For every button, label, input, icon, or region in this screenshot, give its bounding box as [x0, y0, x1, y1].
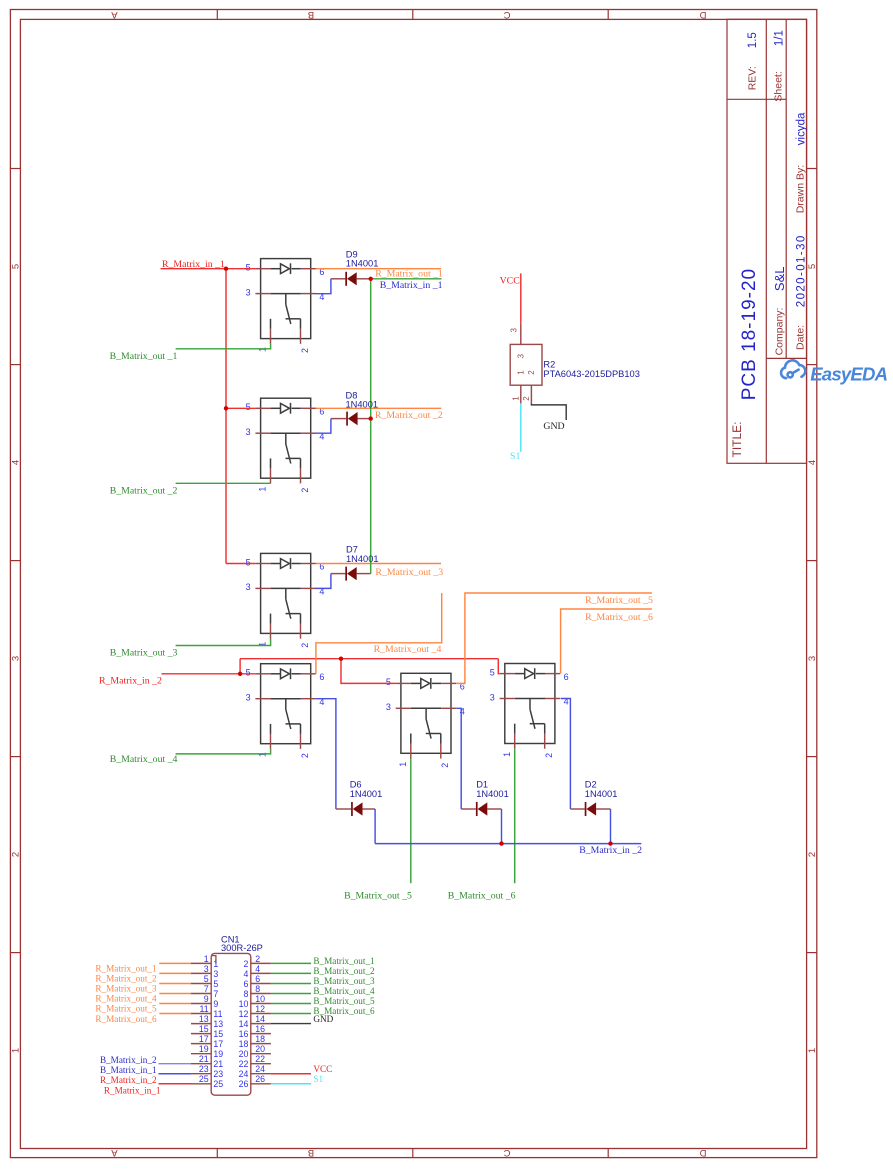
- svg-text:A: A: [111, 9, 118, 20]
- wire B_Matrix_out_2: [176, 482, 271, 484]
- svg-text:12: 12: [255, 1004, 265, 1014]
- svg-text:PTA6043-2015DPB103: PTA6043-2015DPB103: [543, 369, 639, 379]
- svg-text:B_Matrix_out _4: B_Matrix_out _4: [110, 754, 178, 765]
- svg-text:S1: S1: [313, 1074, 323, 1084]
- svg-text:25: 25: [199, 1074, 209, 1084]
- svg-text:5: 5: [807, 264, 818, 269]
- svg-text:B_Matrix_in_1: B_Matrix_in_1: [100, 1065, 157, 1075]
- svg-text:1: 1: [11, 1048, 22, 1053]
- svg-text:11: 11: [200, 1004, 209, 1014]
- svg-text:B: B: [308, 9, 314, 20]
- svg-text:4: 4: [255, 964, 260, 974]
- CN1 right wires B_Matrix_out 1-6: [271, 963, 311, 1013]
- diode D6 leads: [336, 808, 375, 810]
- R2 pin 1 bottom: [520, 385, 522, 403]
- svg-text:1N4001: 1N4001: [346, 554, 379, 564]
- wire R_Matrix_in_2 riser: [239, 659, 241, 674]
- opto relay K1: [246, 259, 325, 353]
- svg-text:B_Matrix_out_5: B_Matrix_out_5: [313, 996, 375, 1006]
- svg-text:2020-01-30: 2020-01-30: [795, 234, 807, 307]
- svg-text:10: 10: [239, 999, 249, 1009]
- svg-text:B_Matrix_out_4: B_Matrix_out_4: [313, 986, 375, 996]
- svg-text:GND: GND: [313, 1014, 333, 1024]
- diode D8 leads: [331, 418, 371, 420]
- svg-text:19: 19: [199, 1044, 209, 1054]
- wire R_Matrix_in_2 drop to K6: [498, 659, 499, 674]
- wire B_Matrix_out_3: [176, 639, 271, 646]
- potentiometer R2 body: [510, 344, 542, 385]
- opto relay K5: [386, 673, 465, 767]
- svg-text:vicyda: vicyda: [795, 112, 807, 145]
- svg-text:B_Matrix_out_2: B_Matrix_out_2: [313, 966, 375, 976]
- label D2 1N4001: [585, 780, 618, 799]
- svg-text:1/1: 1/1: [773, 30, 785, 46]
- diode D9 leads: [331, 278, 371, 280]
- wire K1 pin4 to D9: [315, 279, 331, 294]
- R2 pin 3 top: [520, 323, 522, 344]
- svg-text:5: 5: [213, 979, 218, 989]
- svg-text:300R-26P: 300R-26P: [221, 943, 263, 953]
- svg-text:B_Matrix_out _6: B_Matrix_out _6: [448, 891, 516, 902]
- svg-text:2: 2: [243, 959, 248, 969]
- svg-text:13: 13: [213, 1019, 223, 1029]
- wire R_Matrix_out_5 from K5 pin6: [456, 593, 652, 683]
- label D1 1N4001: [476, 780, 509, 799]
- opto relay K3: [246, 553, 325, 647]
- svg-text:1: 1: [807, 1048, 818, 1053]
- svg-text:D: D: [699, 1147, 706, 1158]
- wire B_Matrix_out_5 vertical: [410, 758, 412, 883]
- svg-text:1.5: 1.5: [747, 32, 759, 48]
- label D9 1N4001: [346, 249, 379, 268]
- title block outline: [727, 19, 807, 463]
- svg-text:24: 24: [239, 1069, 249, 1079]
- svg-text:25: 25: [213, 1079, 223, 1089]
- svg-text:R_Matrix_out_1: R_Matrix_out_1: [95, 964, 157, 974]
- svg-text:1: 1: [204, 954, 209, 964]
- wire R_Matrix_out_3 from K3 pin6: [316, 563, 441, 565]
- wire R_Matrix_in_1 branch to K3 pin5: [226, 563, 255, 565]
- diode D8 1N4001: [346, 412, 357, 426]
- CN1 wire B_Matrix_in_2 pin21: [159, 1063, 192, 1065]
- svg-text:B_Matrix_in_2: B_Matrix_in_2: [100, 1055, 157, 1065]
- svg-text:R_Matrix_in _2: R_Matrix_in _2: [99, 675, 162, 686]
- svg-text:R_Matrix_out _4: R_Matrix_out _4: [374, 644, 442, 655]
- svg-text:D: D: [699, 9, 706, 20]
- svg-text:C: C: [503, 9, 510, 20]
- svg-text:4: 4: [11, 460, 22, 465]
- svg-text:15: 15: [199, 1024, 209, 1034]
- svg-text:1N4001: 1N4001: [585, 789, 618, 799]
- svg-text:B_Matrix_out_3: B_Matrix_out_3: [313, 976, 375, 986]
- wire R_Matrix_in_1 branch to K2 pin5: [226, 407, 255, 409]
- svg-text:20: 20: [239, 1049, 249, 1059]
- svg-text:R_Matrix_out _1: R_Matrix_out _1: [375, 268, 443, 279]
- diode D1 leads: [461, 808, 501, 810]
- svg-text:3: 3: [517, 354, 526, 359]
- svg-text:C: C: [503, 1147, 510, 1158]
- svg-text:4: 4: [243, 969, 248, 979]
- wire R_Matrix_in_1 vertical trunk: [225, 269, 227, 564]
- svg-text:1N4001: 1N4001: [346, 259, 379, 269]
- svg-text:1: 1: [512, 396, 521, 401]
- CN1 right labels B_Matrix_out 1-6: [313, 956, 375, 1016]
- svg-text:21: 21: [199, 1054, 209, 1064]
- svg-text:8: 8: [255, 984, 260, 994]
- svg-text:26: 26: [239, 1079, 249, 1089]
- svg-text:R_Matrix_out _6: R_Matrix_out _6: [585, 612, 653, 623]
- svg-text:24: 24: [255, 1064, 265, 1074]
- svg-text:6: 6: [243, 979, 248, 989]
- connector CN1 body: [211, 953, 251, 1095]
- svg-text:R_Matrix_in_2: R_Matrix_in_2: [100, 1075, 157, 1085]
- svg-text:18: 18: [239, 1039, 249, 1049]
- wire R_Matrix_out_2 from K2 pin6: [316, 407, 441, 409]
- svg-text:1: 1: [213, 959, 218, 969]
- wire B_Matrix_out_1: [176, 344, 271, 349]
- svg-text:R_Matrix_out _5: R_Matrix_out _5: [585, 595, 653, 606]
- wire K5 pin4 down to D1: [456, 708, 461, 809]
- svg-text:22: 22: [239, 1059, 249, 1069]
- svg-text:12: 12: [239, 1009, 249, 1019]
- svg-text:R_Matrix_out_6: R_Matrix_out_6: [95, 1014, 157, 1024]
- CN1 wire R_Matrix_in_2 pin25: [159, 1083, 192, 1085]
- svg-text:Drawn By:: Drawn By:: [795, 165, 807, 213]
- R2 pin numbers: [510, 328, 532, 401]
- svg-text:22: 22: [255, 1054, 265, 1064]
- svg-text:3: 3: [213, 969, 218, 979]
- svg-text:R_Matrix_out_5: R_Matrix_out_5: [95, 1004, 157, 1014]
- svg-text:17: 17: [213, 1039, 223, 1049]
- diode D7 leads: [331, 573, 371, 575]
- svg-text:2: 2: [522, 396, 531, 401]
- svg-text:7: 7: [213, 989, 218, 999]
- diode D2 leads: [570, 808, 610, 810]
- opto relay K4: [246, 664, 325, 758]
- wire K6 pin4 down to D2: [561, 699, 571, 810]
- svg-text:B_Matrix_in _1: B_Matrix_in _1: [380, 280, 443, 291]
- CN1 wire VCC pin24: [271, 1073, 311, 1075]
- svg-text:17: 17: [199, 1034, 209, 1044]
- wire R_Matrix_out_6 from K6 pin6: [561, 609, 652, 674]
- label CN1 300R-26P: [221, 935, 263, 954]
- svg-text:R_Matrix_out _3: R_Matrix_out _3: [375, 567, 443, 578]
- diode D7 1N4001: [345, 567, 356, 581]
- label D8 1N4001: [346, 390, 379, 409]
- svg-text:B_Matrix_out _5: B_Matrix_out _5: [344, 891, 412, 902]
- svg-text:5: 5: [11, 264, 22, 269]
- svg-text:TITLE:: TITLE:: [730, 421, 744, 457]
- svg-text:GND: GND: [543, 421, 564, 432]
- frame zone letters bottom: [111, 1147, 707, 1158]
- svg-text:3: 3: [510, 328, 519, 333]
- wire VCC to R2 pin3: [520, 273, 522, 323]
- svg-text:1: 1: [517, 370, 526, 375]
- svg-text:Sheet:: Sheet:: [773, 71, 785, 101]
- svg-text:23: 23: [199, 1064, 209, 1074]
- svg-text:Date:: Date:: [795, 325, 807, 350]
- svg-text:20: 20: [255, 1044, 265, 1054]
- svg-text:3: 3: [11, 656, 22, 661]
- CN1 wire GND pin14: [271, 1023, 311, 1025]
- diode D9 1N4001: [345, 272, 356, 286]
- wire B_Matrix_out_4: [176, 749, 271, 754]
- R2 pin 2 bottom: [530, 385, 532, 403]
- svg-text:26: 26: [255, 1074, 265, 1084]
- svg-text:13: 13: [199, 1014, 209, 1024]
- opto relay K6: [490, 664, 569, 758]
- wire R_Matrix_out_1 from K1 pin6: [316, 268, 441, 270]
- svg-text:1N4001: 1N4001: [346, 400, 379, 410]
- CN1 wire S1 pin26: [271, 1083, 311, 1085]
- svg-text:2: 2: [807, 852, 818, 857]
- svg-text:EasyEDA: EasyEDA: [810, 363, 887, 384]
- svg-text:S&L: S&L: [772, 267, 787, 292]
- diode D1 1N4001: [476, 802, 487, 816]
- svg-text:10: 10: [255, 994, 265, 1004]
- CN1 pin1 notch: [211, 956, 216, 964]
- wire B_Matrix_in_1 vertical trunk: [370, 279, 372, 574]
- junction dots: [224, 267, 613, 846]
- frame zone numbers right: [807, 264, 818, 1053]
- svg-text:VCC: VCC: [313, 1064, 332, 1074]
- label D6 1N4001: [350, 780, 383, 799]
- EasyEDA logo cloud: [781, 360, 805, 378]
- svg-text:R_Matrix_in _1: R_Matrix_in _1: [162, 259, 225, 270]
- svg-text:PCB 18-19-20: PCB 18-19-20: [739, 268, 760, 400]
- svg-text:B_Matrix_out _2: B_Matrix_out _2: [110, 485, 178, 496]
- svg-text:2: 2: [255, 954, 260, 964]
- wire K3 pin4 to D7: [315, 574, 331, 589]
- svg-text:11: 11: [213, 1009, 222, 1019]
- frame zone letters top: [111, 9, 707, 20]
- CN1 left labels R_Matrix_out 1-6: [95, 964, 157, 1024]
- svg-text:14: 14: [255, 1014, 265, 1024]
- svg-text:16: 16: [255, 1024, 265, 1034]
- svg-text:R_Matrix_out_4: R_Matrix_out_4: [95, 994, 157, 1004]
- svg-text:18: 18: [255, 1034, 265, 1044]
- CN1 wire B_Matrix_in_1 pin23: [159, 1073, 192, 1075]
- svg-text:B: B: [308, 1147, 314, 1158]
- wire B_Matrix_out_6 vertical: [514, 749, 516, 884]
- svg-text:7: 7: [204, 984, 209, 994]
- svg-text:R_Matrix_out_3: R_Matrix_out_3: [95, 984, 157, 994]
- label R2 PTA6043-2015DPB103: [543, 360, 639, 379]
- svg-text:B_Matrix_in _2: B_Matrix_in _2: [579, 845, 642, 856]
- wire D1 to bus: [501, 809, 503, 844]
- CN1 pin numbers inside: [213, 959, 248, 1089]
- wire K4 pin4 down to D6: [316, 699, 336, 809]
- svg-text:16: 16: [239, 1029, 249, 1039]
- svg-text:A: A: [111, 1147, 118, 1158]
- frame zone numbers left: [11, 264, 22, 1053]
- svg-text:6: 6: [255, 974, 260, 984]
- svg-text:2: 2: [11, 852, 22, 857]
- svg-text:14: 14: [239, 1019, 249, 1029]
- svg-text:3: 3: [204, 964, 209, 974]
- wire R_Matrix_in_2 drop to K5: [341, 659, 396, 684]
- svg-text:REV:: REV:: [747, 66, 759, 90]
- svg-text:S1: S1: [510, 451, 520, 462]
- diode D2 1N4001: [585, 802, 596, 816]
- wire B_Matrix_in_2 bus: [375, 843, 641, 845]
- wire D6 to B_Matrix_in_2 bus: [374, 809, 376, 844]
- wire D2 to bus: [610, 809, 612, 844]
- svg-text:B_Matrix_out _1: B_Matrix_out _1: [110, 351, 178, 362]
- svg-text:4: 4: [807, 460, 818, 465]
- svg-text:9: 9: [213, 999, 218, 1009]
- svg-text:1N4001: 1N4001: [476, 789, 509, 799]
- wire R_Matrix_in_1 horizontal to K1 pin5: [161, 268, 256, 270]
- wire R_Matrix_in_2 horizontal to K4 pin5: [162, 673, 256, 675]
- wire S1 from R2 pin1: [520, 403, 522, 451]
- wire GND from R2 pin2: [531, 403, 566, 420]
- svg-text:B_Matrix_out _3: B_Matrix_out _3: [110, 648, 178, 659]
- wire R_Matrix_out_4 from K4 pin6: [316, 593, 442, 674]
- diode D6 1N4001: [351, 802, 362, 816]
- wire K2 pin4 to D8: [315, 419, 331, 434]
- label D7 1N4001: [346, 545, 379, 564]
- R2 pin names inside: [517, 354, 537, 375]
- svg-text:Company:: Company:: [774, 308, 786, 356]
- wire R_Matrix_in_2 upper trunk: [240, 658, 498, 660]
- CN1 left wires R_Matrix_out 1-6: [159, 963, 191, 1013]
- svg-text:2: 2: [527, 370, 536, 375]
- CN1 pin stubs: [191, 963, 271, 1083]
- svg-text:8: 8: [243, 989, 248, 999]
- CN1 pin numbers outside: [199, 954, 265, 1084]
- opto relay K2: [246, 398, 325, 492]
- svg-text:15: 15: [213, 1029, 223, 1039]
- svg-text:23: 23: [213, 1069, 223, 1079]
- svg-text:19: 19: [213, 1049, 223, 1059]
- svg-text:R_Matrix_out_2: R_Matrix_out_2: [95, 974, 157, 984]
- svg-text:21: 21: [213, 1059, 223, 1069]
- svg-text:5: 5: [204, 974, 209, 984]
- svg-text:B_Matrix_out_1: B_Matrix_out_1: [313, 956, 375, 966]
- svg-text:VCC: VCC: [500, 275, 520, 286]
- svg-text:9: 9: [204, 994, 209, 1004]
- svg-text:R_Matrix_out _2: R_Matrix_out _2: [375, 410, 443, 421]
- svg-text:R_Matrix_in_1: R_Matrix_in_1: [104, 1085, 161, 1095]
- svg-text:1N4001: 1N4001: [350, 789, 383, 799]
- svg-text:3: 3: [807, 656, 818, 661]
- wire B_Matrix_in_1 horizontal stub: [371, 278, 442, 280]
